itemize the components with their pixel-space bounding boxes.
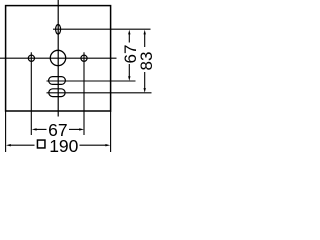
wire top oval horizontal extension line [53,28,151,30]
node top oval knockout [56,25,61,35]
node right mounting hole [81,55,87,61]
dimension 67 right vertical [121,30,140,81]
wire right hole vertical extension line [83,52,85,135]
wire left 190 extension line [5,111,7,152]
node left mounting hole [28,55,34,61]
dimension square-190 bottom horizontal [6,136,110,156]
wire horizontal center line [0,57,117,59]
node middle stadium knockout [49,77,66,85]
svg-text:190: 190 [49,136,78,156]
dimension 67 bottom horizontal [32,120,84,140]
dimension 83 right vertical [137,30,156,93]
node center hole [50,50,65,65]
wire lower stadium horizontal extension line [47,92,152,94]
svg-text:83: 83 [137,52,156,71]
wire vertical center line [57,0,59,117]
wire left hole vertical extension line [30,52,32,135]
node lower stadium knockout [49,89,65,97]
wire middle stadium horizontal extension line [47,80,136,82]
wire right 190 extension line [110,111,112,152]
plate outline rectangle [6,6,111,111]
